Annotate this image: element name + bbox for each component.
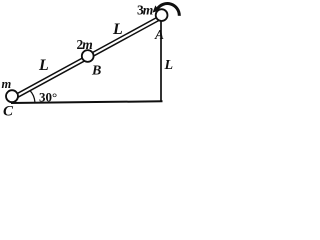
svg-text:2m: 2m (77, 37, 93, 52)
angle arc 30 deg (30, 91, 35, 102)
svg-text:B: B (91, 64, 101, 79)
rotation arrowhead (153, 5, 159, 12)
rotation arc arrow over A (157, 4, 179, 16)
svg-text:L: L (112, 21, 123, 38)
mass circle at C (6, 90, 18, 102)
svg-text:L: L (164, 58, 174, 73)
svg-text:3m: 3m (137, 3, 153, 18)
svg-text:m: m (2, 77, 12, 91)
mass circle at A (156, 9, 168, 21)
svg-text:L: L (38, 57, 49, 74)
wire: bottom horizontal ground line (11, 101, 163, 103)
rod C-A (two parallel lines) (11, 15, 162, 101)
svg-text:A: A (154, 27, 164, 42)
mass circle at B (82, 50, 94, 62)
svg-text:30°: 30° (39, 90, 57, 105)
wire: right vertical line (160, 21, 162, 102)
svg-text:C: C (3, 104, 14, 119)
